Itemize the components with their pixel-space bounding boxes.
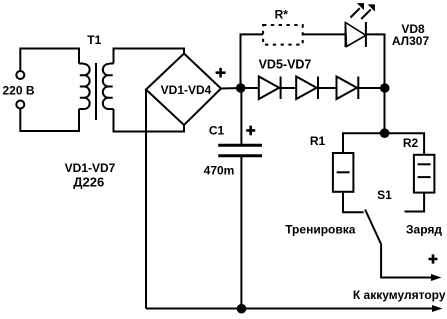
transformer T1 secondary winding — [103, 64, 114, 110]
label plus battery — [429, 254, 438, 263]
wire R1 bottom to contact — [343, 192, 364, 213]
svg-text:220 В: 220 В — [3, 84, 35, 98]
wire R* to LED — [303, 33, 345, 35]
junction node bridge output — [236, 83, 246, 93]
wire secondary top to bridge — [114, 49, 185, 64]
svg-text:R2: R2 — [403, 136, 419, 150]
bottom rail — [146, 308, 433, 310]
switch S1 lever — [365, 210, 381, 245]
diode VD7 — [337, 77, 359, 100]
wire top branch left — [241, 34, 264, 88]
wire right branch down — [384, 88, 386, 133]
svg-text:Тренировка: Тренировка — [285, 223, 356, 237]
arrowhead to battery plus — [431, 274, 442, 281]
svg-text:Д226: Д226 — [73, 174, 104, 189]
capacitor C1 wire bottom — [240, 157, 242, 309]
LED emission arrow 2 — [361, 4, 375, 19]
svg-text:R*: R* — [275, 8, 289, 22]
svg-text:VD1-VD7: VD1-VD7 — [65, 161, 116, 175]
wire LED to right branch — [366, 34, 385, 88]
svg-text:АЛ307: АЛ307 — [392, 34, 430, 48]
capacitor C1 plates — [218, 145, 262, 156]
bridge rectifier VD1-VD4 — [146, 54, 221, 126]
resistor R1 — [333, 153, 354, 192]
wire main chain VD5-VD7 — [241, 87, 385, 89]
wire node to R2 — [385, 133, 425, 155]
svg-text:C1: C1 — [209, 124, 225, 138]
svg-text:Заряд: Заряд — [406, 223, 442, 237]
wire primary loop top — [20, 49, 79, 72]
svg-text:R1: R1 — [310, 134, 326, 148]
AC source terminal top — [16, 71, 24, 79]
junction node R1 R2 — [380, 128, 390, 138]
label plus bridge — [216, 68, 226, 78]
svg-text:К аккумулятору: К аккумулятору — [353, 288, 446, 302]
transformer core — [95, 63, 97, 120]
AC source terminal bottom — [16, 101, 24, 109]
LED emission arrow 1 — [351, 3, 365, 17]
resistor R* (dashed) — [263, 25, 303, 45]
wire bridge left vertex to bottom rail — [145, 90, 147, 309]
wire bridge output to node — [221, 87, 241, 90]
wire switch common to arrow — [381, 244, 432, 277]
capacitor C1 wire top — [240, 88, 242, 144]
svg-text:VD5-VD7: VD5-VD7 — [259, 57, 312, 71]
diode VD6 — [296, 77, 318, 100]
transformer T1 primary winding — [79, 64, 90, 110]
diode VD5 — [259, 77, 281, 100]
wire node to R1 — [343, 133, 385, 153]
svg-text:T1: T1 — [87, 33, 101, 47]
junction node after VD7 — [380, 83, 390, 93]
svg-text:470m: 470m — [204, 164, 235, 178]
wire secondary bottom to bridge — [114, 109, 185, 132]
junction node bottom rail — [237, 304, 247, 314]
LED VD8 — [346, 22, 366, 47]
wire R2 bottom to contact — [405, 193, 425, 212]
wire primary loop bottom — [20, 109, 79, 132]
arrowhead bottom rail — [432, 305, 443, 312]
resistor R2 — [414, 155, 435, 193]
label plus C1 — [246, 126, 255, 136]
svg-text:VD1-VD4: VD1-VD4 — [161, 83, 212, 97]
svg-text:S1: S1 — [377, 188, 392, 202]
